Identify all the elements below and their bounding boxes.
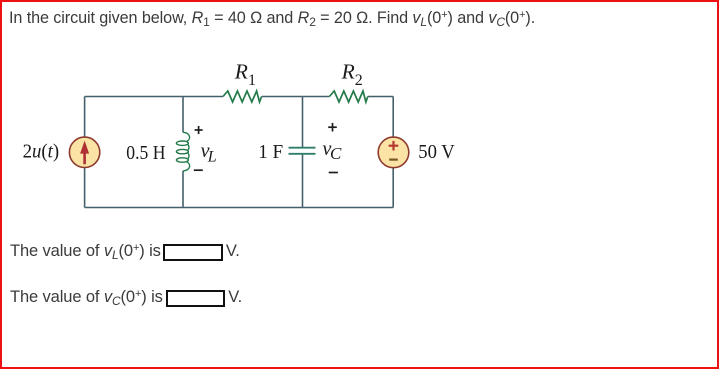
capacitor C plates [289, 148, 316, 154]
label vL with polarity [194, 126, 203, 170]
svg-text:2: 2 [355, 72, 363, 89]
wire: capacitor branch below plates [302, 154, 304, 207]
wire: right rail above voltage source [392, 97, 394, 138]
svg-text:1: 1 [248, 72, 256, 89]
svg-text:1 F: 1 F [258, 141, 283, 163]
wire: top-right segment from R2 to right rail [368, 96, 393, 98]
problem statement text [9, 10, 535, 26]
wire: bottom rail [85, 207, 394, 209]
resistor R2 [329, 91, 367, 102]
svg-text:C: C [330, 144, 342, 163]
answer row 2 [10, 289, 242, 307]
inductor L coil [176, 132, 189, 171]
label vC with polarity [328, 123, 338, 173]
current source 2u(t) [69, 137, 99, 167]
resistor R1 [223, 91, 262, 102]
wire: inductor branch above coil [182, 97, 184, 133]
wire: left rail below current source [84, 168, 86, 208]
svg-text:L: L [207, 149, 217, 166]
wire: top segment between R1 and R2 [262, 96, 330, 98]
svg-text:2u(t): 2u(t) [23, 142, 60, 163]
svg-text:0.5 H: 0.5 H [126, 142, 165, 164]
wire: right rail below voltage source [392, 168, 394, 208]
wire: inductor branch below coil [182, 171, 184, 208]
voltage source 50 V [378, 137, 409, 168]
svg-text:R: R [341, 60, 355, 84]
svg-text:50 V: 50 V [418, 141, 455, 163]
answer row 1 [10, 243, 240, 261]
wire: capacitor branch above plates [302, 97, 304, 148]
wire: top-left segment from left rail to R1 [85, 96, 223, 98]
svg-text:R: R [234, 60, 248, 84]
wire: left rail above current source [84, 97, 86, 138]
